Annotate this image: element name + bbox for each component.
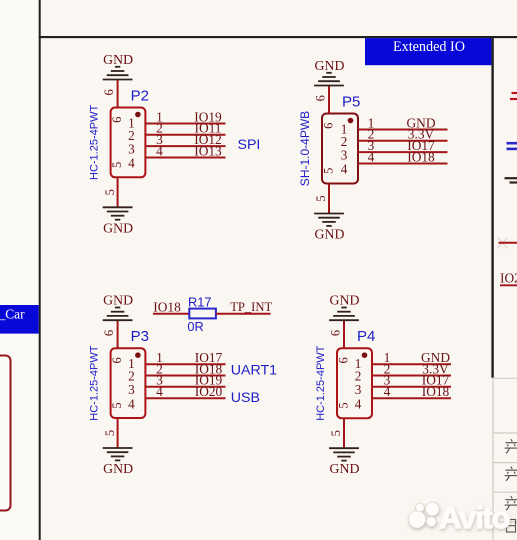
wire pin 3 of P2 (145, 145, 225, 147)
wire (cut off, right edge) (499, 242, 517, 244)
ground symbol below P3 (103, 448, 133, 460)
wire pin 4 of P5 (358, 163, 448, 165)
svg-text:6: 6 (322, 123, 336, 129)
svg-text:6: 6 (110, 117, 124, 123)
table text row 4 (glyph ri) (507, 520, 516, 533)
svg-text:IO18: IO18 (422, 384, 450, 399)
resistor R17 body (189, 309, 216, 319)
wire pin 4 of P3 (145, 397, 225, 399)
table text row 1 (Chinese glyph) (505, 439, 517, 453)
svg-text:IO13: IO13 (194, 143, 222, 158)
connector U? (cut off at left edge) (0, 356, 11, 511)
svg-text:6: 6 (329, 330, 343, 336)
svg-text:5: 5 (322, 168, 336, 174)
svg-text:GND: GND (103, 461, 133, 476)
svg-text:4: 4 (384, 384, 391, 399)
svg-text:HC-1.25-4PWT: HC-1.25-4PWT (88, 105, 100, 180)
svg-text:6: 6 (110, 357, 124, 363)
table grid (bottom right) (493, 378, 517, 540)
ground symbol above P5 (314, 73, 344, 86)
svg-text:GND: GND (315, 58, 345, 73)
watermark logo circles (408, 502, 439, 528)
wire pin 2 of P2 (145, 134, 225, 136)
svg-text:GND: GND (103, 220, 133, 235)
svg-text:GND: GND (330, 461, 360, 476)
svg-text:P4: P4 (357, 328, 375, 345)
svg-text:6: 6 (102, 89, 116, 95)
wire pin 3 of P3 (145, 386, 225, 388)
svg-text:UART1: UART1 (231, 362, 277, 378)
wire R17 to TP_INT (216, 313, 271, 315)
wire pin6 to GND (P2) (117, 80, 119, 108)
svg-text:4: 4 (368, 149, 375, 164)
svg-text:5: 5 (314, 195, 328, 201)
svg-text:5: 5 (329, 430, 343, 436)
svg-text:SH-1.0-4PWB: SH-1.0-4PWB (298, 111, 312, 186)
ground symbol below P5 (314, 214, 344, 226)
svg-text:0R: 0R (187, 319, 203, 334)
wire pin 3 of P5 (358, 151, 448, 153)
svg-text:4: 4 (156, 143, 163, 158)
wire pin 1 of P5 (358, 129, 448, 131)
capacitor plates (cut off, right edge) (507, 142, 517, 145)
wire pin5 to GND (P5) (328, 184, 330, 214)
svg-text:IO20: IO20 (500, 270, 517, 285)
svg-text:HC-1.25-4PWT: HC-1.25-4PWT (315, 345, 327, 420)
pin 1 marker dot P2 (135, 112, 141, 118)
table text row 3 (Chinese glyph) (505, 496, 517, 510)
svg-text:5: 5 (337, 402, 351, 408)
net stub fragment (cut off, right edge) (512, 92, 517, 94)
connector P2 (HC-1.25-4PWT) (111, 108, 146, 178)
svg-text:5: 5 (103, 189, 117, 195)
title banner: Extended IO (365, 38, 491, 65)
wire pin5 to GND (P2) (117, 177, 119, 207)
svg-text:GND: GND (315, 227, 345, 242)
ground symbol above P2 (103, 67, 133, 80)
wire pin 2 of P5 (358, 140, 448, 142)
wire pin6 to GND (P5) (328, 86, 330, 114)
no-connect cross marker (498, 238, 508, 249)
svg-text:3: 3 (355, 382, 362, 397)
svg-text:3: 3 (128, 141, 135, 156)
svg-text:5: 5 (110, 162, 124, 168)
svg-text:6: 6 (102, 330, 116, 336)
svg-text:P2: P2 (131, 88, 149, 105)
wire pin5 to GND (P4) (343, 418, 345, 448)
wire under IO2 label (500, 284, 517, 286)
wire pin6 to GND (P3) (117, 320, 119, 348)
sheet margin strip (lighter left edge) (0, 0, 39, 540)
svg-text:IO18: IO18 (153, 300, 181, 315)
wire pin5 to GND (P3) (117, 418, 119, 448)
svg-text:GND: GND (330, 293, 360, 308)
svg-text:5: 5 (110, 402, 124, 408)
title banner: _Car (left edge) (0, 305, 39, 334)
ground symbol above P4 (329, 308, 359, 321)
svg-text:3: 3 (128, 382, 135, 397)
svg-text:IO20: IO20 (195, 384, 223, 399)
svg-text:4: 4 (341, 162, 348, 177)
svg-text:TP_INT: TP_INT (230, 300, 272, 314)
svg-text:Avito: Avito (439, 500, 510, 535)
svg-text:6: 6 (337, 357, 351, 363)
svg-text:SPI: SPI (238, 137, 261, 153)
svg-text:P3: P3 (131, 328, 149, 345)
sheet border: inner right vertical line (491, 37, 493, 378)
wire pin 1 of P3 (145, 363, 225, 365)
svg-text:4: 4 (355, 396, 362, 411)
svg-text:IO18: IO18 (407, 149, 435, 164)
wire IO18 to R17 (153, 313, 189, 315)
svg-text:6: 6 (314, 95, 328, 101)
pin 1 marker dot P5 (348, 118, 354, 124)
wire pin 2 of P3 (145, 375, 225, 377)
wire pin6 to GND (P4) (343, 320, 345, 348)
sheet border: left vertical line (39, 0, 41, 540)
wire pin 4 of P4 (372, 397, 451, 399)
svg-text:5: 5 (103, 430, 117, 436)
pin 1 marker dot P4 (362, 352, 368, 358)
svg-text:GND: GND (103, 52, 133, 67)
ground symbol below P2 (103, 207, 133, 219)
svg-text:3: 3 (341, 147, 348, 162)
svg-text:4: 4 (128, 396, 135, 411)
svg-text:GND: GND (103, 293, 133, 308)
connector P4 (HC-1.25-4PWT) (337, 348, 372, 418)
wire pin 1 of P4 (372, 363, 451, 365)
pin 1 marker dot P3 (135, 352, 141, 358)
wire pin 3 of P4 (372, 386, 451, 388)
sheet border: top horizontal line (39, 36, 517, 38)
svg-text:R17: R17 (188, 294, 211, 309)
wire pin 4 of P2 (145, 157, 225, 159)
ground symbol below P4 (329, 448, 359, 460)
svg-text:USB: USB (231, 390, 260, 406)
svg-text:_Car: _Car (0, 306, 25, 321)
ground symbol above P3 (103, 308, 133, 321)
svg-text:4: 4 (128, 156, 135, 171)
table text row 2 (Chinese glyph) (505, 467, 517, 481)
svg-text:Extended IO: Extended IO (393, 39, 465, 55)
wire pin 2 of P4 (372, 375, 451, 377)
ground symbol (cut off, right edge) (505, 177, 517, 179)
connector P3 (HC-1.25-4PWT) (111, 348, 146, 418)
svg-text:4: 4 (156, 384, 163, 399)
wire pin 1 of P2 (145, 123, 225, 125)
svg-text:HC-1.25-4PWT: HC-1.25-4PWT (88, 345, 100, 420)
svg-text:P5: P5 (342, 94, 360, 111)
connector P5 (SH-1.0-4PWB) (322, 114, 358, 184)
